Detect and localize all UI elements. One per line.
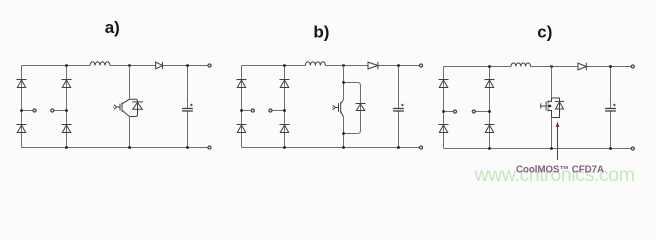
wire bridge right leg a bbox=[66, 66, 68, 148]
capacitor C1a bbox=[182, 104, 193, 111]
AC terminal right b bbox=[269, 109, 272, 112]
junction right leg/AC stub c bbox=[488, 110, 490, 112]
svg-text:CoolMOS™ CFD7A: CoolMOS™ CFD7A bbox=[516, 165, 604, 176]
AC terminal left b bbox=[251, 109, 254, 112]
wire top rail a bbox=[22, 65, 210, 67]
junction diode branch top b bbox=[342, 81, 344, 83]
output terminal minus c bbox=[631, 147, 634, 150]
boost diode D5a bbox=[156, 62, 163, 69]
wire cap branch lower b bbox=[398, 111, 400, 148]
wire cap branch upper b bbox=[398, 66, 400, 109]
output terminal minus b bbox=[419, 146, 422, 149]
diode D2a bridge upper-right bbox=[62, 80, 72, 88]
svg-text:c): c) bbox=[537, 23, 552, 42]
AC terminal left a bbox=[33, 109, 36, 112]
junction right leg/AC stub b bbox=[283, 109, 285, 111]
junction cap/top rail a bbox=[186, 64, 188, 66]
svg-text:a): a) bbox=[105, 18, 120, 37]
output terminal minus a bbox=[208, 146, 211, 149]
wire bottom rail b bbox=[242, 147, 422, 149]
diode D3a bridge lower-left bbox=[17, 125, 27, 133]
wire AC stub right b bbox=[272, 110, 285, 112]
wire bottom rail c bbox=[444, 148, 633, 150]
output terminal plus c bbox=[631, 65, 634, 68]
diode D3c bridge lower-left bbox=[439, 125, 449, 133]
junction right leg/top rail b bbox=[283, 64, 285, 66]
transistor Q1a IGBT with antiparallel diode bbox=[113, 99, 143, 116]
junction cap/bottom rail c bbox=[609, 147, 611, 149]
diode D4b bridge lower-right bbox=[280, 125, 290, 133]
AC terminal right c bbox=[472, 110, 475, 113]
capacitor C1b bbox=[393, 104, 404, 111]
inductor L1a bbox=[90, 62, 110, 67]
wire bridge left leg b bbox=[241, 66, 243, 148]
wire cap branch upper a bbox=[187, 66, 189, 109]
diode D3b bridge lower-left bbox=[237, 125, 247, 133]
label c) bbox=[537, 23, 552, 42]
label CoolMOS CFD7A bbox=[516, 165, 604, 176]
junction cap/top rail b bbox=[397, 64, 399, 66]
wire top rail b bbox=[242, 65, 422, 67]
junction switch node/top rail b bbox=[342, 64, 344, 66]
svg-text:b): b) bbox=[313, 22, 329, 41]
diode D4c bridge lower-right bbox=[485, 125, 495, 133]
wire cap branch upper c bbox=[610, 67, 612, 109]
wire AC stub right a bbox=[54, 110, 67, 112]
transistor Q1b IGBT bbox=[332, 100, 343, 118]
wire AC stub right c bbox=[475, 111, 489, 113]
wire AC stub left b bbox=[242, 110, 252, 112]
junction right leg/top rail c bbox=[488, 65, 490, 67]
wire AC stub left a bbox=[22, 110, 34, 112]
junction right leg/top rail a bbox=[65, 64, 67, 66]
junction left leg/AC stub b bbox=[240, 109, 242, 111]
output terminal plus b bbox=[419, 64, 422, 67]
wire bottom rail a bbox=[22, 147, 210, 149]
junction cap/bottom rail b bbox=[397, 146, 399, 148]
wire switch source lead a bbox=[129, 117, 131, 148]
capacitor C1c bbox=[605, 104, 616, 111]
wire bridge left leg c bbox=[443, 67, 445, 149]
diode D4a bridge lower-right bbox=[62, 125, 72, 133]
AC terminal left c bbox=[453, 110, 456, 113]
wire cap branch lower c bbox=[610, 111, 612, 149]
junction switch/bottom rail c bbox=[550, 147, 552, 149]
diode D6b antiparallel bbox=[356, 104, 366, 111]
junction right leg/AC stub a bbox=[65, 109, 67, 111]
junction switch node/top rail a bbox=[128, 64, 130, 66]
junction right leg/bottom rail b bbox=[283, 146, 285, 148]
junction diode branch bottom b bbox=[342, 132, 344, 134]
wire bridge right leg c bbox=[489, 67, 491, 149]
watermark www.cntronics.com bbox=[474, 164, 635, 186]
boost diode D5b bbox=[368, 62, 378, 69]
diode D1c bridge upper-left bbox=[439, 80, 449, 88]
AC terminal right a bbox=[51, 109, 54, 112]
wire switch drain lead a bbox=[129, 66, 131, 100]
boost diode D5c bbox=[578, 63, 586, 70]
wire bridge left leg a bbox=[21, 66, 23, 148]
inductor L1b bbox=[305, 62, 325, 67]
junction switch node/top rail c bbox=[550, 65, 552, 67]
junction cap/bottom rail a bbox=[186, 146, 188, 148]
label b) bbox=[313, 22, 329, 41]
junction switch/bottom rail a bbox=[128, 146, 130, 148]
junction left leg/AC stub c bbox=[442, 110, 444, 112]
diode D1b bridge upper-left bbox=[237, 80, 247, 88]
wire antiparallel diode branch b bbox=[344, 83, 361, 134]
junction left leg/AC stub a bbox=[20, 109, 22, 111]
inductor L1c bbox=[511, 63, 531, 68]
diode D1a bridge upper-left bbox=[17, 80, 27, 88]
label a) bbox=[105, 18, 120, 37]
wire switch source lead c bbox=[551, 118, 553, 149]
junction right leg/bottom rail a bbox=[65, 146, 67, 148]
wire cap branch lower a bbox=[187, 111, 189, 148]
wire bridge right leg b bbox=[284, 66, 286, 148]
wire switch drain lead b bbox=[343, 66, 345, 100]
diode D2b bridge upper-right bbox=[280, 80, 290, 88]
transistor Q1c CoolMOS CFD7A MOSFET bbox=[541, 98, 564, 118]
wire switch source lead b bbox=[343, 117, 345, 148]
annotation arrow to CoolMOS bbox=[556, 122, 560, 161]
junction right leg/bottom rail c bbox=[488, 147, 490, 149]
junction cap/top rail c bbox=[609, 65, 611, 67]
output terminal plus a bbox=[208, 64, 211, 67]
wire switch drain lead c bbox=[551, 67, 553, 99]
wire top rail c bbox=[444, 66, 633, 68]
junction switch/bottom rail b bbox=[342, 146, 344, 148]
diode D2c bridge upper-right bbox=[485, 80, 495, 88]
wire AC stub left c bbox=[444, 111, 454, 113]
